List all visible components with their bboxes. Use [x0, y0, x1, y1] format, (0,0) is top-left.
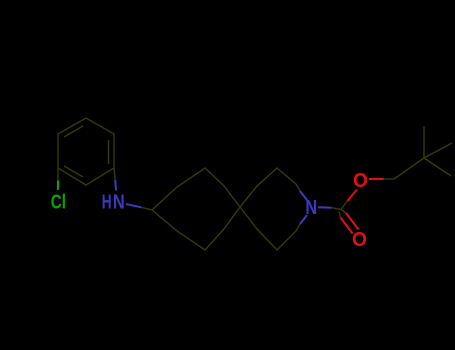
- svg-text:N: N: [305, 197, 317, 219]
- svg-text:O: O: [352, 228, 367, 250]
- svg-text:N: N: [113, 190, 125, 213]
- svg-text:O: O: [353, 170, 368, 192]
- svg-text:Cl: Cl: [51, 190, 66, 213]
- svg-text:H: H: [102, 191, 112, 213]
